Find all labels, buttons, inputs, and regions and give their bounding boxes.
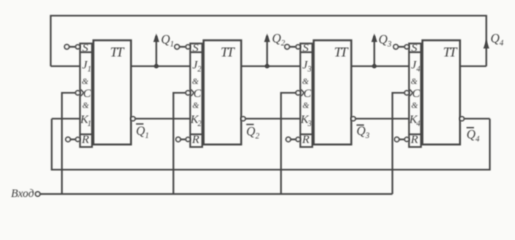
U3 Q3bar overline <box>357 124 365 125</box>
wire C2 clock drop <box>173 93 185 194</box>
U3 R cell separator <box>300 133 312 135</box>
flip-flop U1 input column <box>80 44 92 148</box>
flip-flop U4 input column <box>409 44 421 148</box>
U3 C dynamic input chevron <box>301 90 304 96</box>
svg-text:&: & <box>411 76 418 86</box>
wire Q3 to J4 <box>351 65 409 67</box>
U2 S cell separator <box>190 51 202 53</box>
U2 S terminal stub <box>179 46 186 48</box>
U4 R input bubble <box>405 137 409 141</box>
flip-flop U2 box <box>204 40 242 144</box>
wire C3 clock drop <box>281 93 296 194</box>
U1 C dynamic input chevron <box>81 90 84 96</box>
svg-text:S: S <box>193 40 199 54</box>
U4 S pin terminal <box>394 45 399 50</box>
U1 Qbar output bubble <box>131 117 135 121</box>
svg-text:&: & <box>411 100 418 110</box>
svg-text:R: R <box>410 132 419 146</box>
U3 R input bubble <box>296 137 300 141</box>
U3 S input bubble <box>296 45 300 49</box>
svg-text:C: C <box>193 86 202 100</box>
U1 C input bubble <box>76 91 80 95</box>
wire C4 clock drop <box>392 93 404 194</box>
U2 R terminal stub <box>180 138 186 140</box>
U4 S input bubble <box>405 45 409 49</box>
svg-text:R: R <box>191 132 200 146</box>
Q4 arrowhead <box>483 40 489 49</box>
U2 R pin terminal <box>176 137 181 142</box>
svg-text:S: S <box>303 40 309 54</box>
U2 S input bubble <box>186 45 190 49</box>
U1 S terminal stub <box>69 46 76 48</box>
Q2 arrowhead <box>264 34 270 43</box>
flip-flop U3 input column <box>300 44 312 148</box>
U1 S cell separator <box>80 51 92 53</box>
U3 S cell separator <box>300 51 312 53</box>
wire C1 clock drop <box>62 93 76 194</box>
wire Q1 to J2 <box>131 65 190 67</box>
wire Q3bar to K4 <box>355 118 409 120</box>
wire Q2bar to K3 <box>245 118 300 120</box>
U3 R pin terminal <box>286 137 291 142</box>
svg-text:S: S <box>411 40 417 54</box>
U2 Q2bar overline <box>246 124 254 125</box>
wire top feedback bus Q4 to J1 <box>51 16 487 66</box>
U4 C input bubble <box>405 91 409 95</box>
U1 S input bubble <box>76 45 80 49</box>
svg-text:C: C <box>412 86 421 100</box>
wire Q1bar to K2 <box>135 118 190 120</box>
wire Q4 output to feedback <box>460 65 486 67</box>
U3 Qbar output bubble <box>351 117 355 121</box>
svg-text:C: C <box>83 86 92 100</box>
U4 Q4bar overline <box>467 127 475 128</box>
wire Q2 arrow stem <box>266 36 268 66</box>
U1 S pin terminal <box>65 45 70 50</box>
svg-text:&: & <box>82 76 89 86</box>
svg-text:C: C <box>303 86 312 100</box>
flip-flop U4 box <box>422 40 460 144</box>
node Q1 junction dot <box>154 64 158 68</box>
flip-flop U3 box <box>314 40 352 144</box>
wire bottom feedback bus Q4bar to K1 <box>52 119 490 170</box>
svg-text:Вход: Вход <box>11 188 34 200</box>
U2 Qbar output bubble <box>241 117 245 121</box>
U2 R input bubble <box>186 137 190 141</box>
wire J1 input <box>51 65 80 67</box>
U3 C input bubble <box>296 91 300 95</box>
U1 Q1bar overline <box>136 123 144 124</box>
svg-text:&: & <box>192 76 199 86</box>
U4 S terminal stub <box>398 46 405 48</box>
U2 C input bubble <box>186 91 190 95</box>
Q3 arrowhead <box>371 34 377 43</box>
svg-text:R: R <box>301 132 310 146</box>
wire Q1 arrow stem <box>155 36 157 66</box>
U1 R terminal stub <box>70 138 76 140</box>
U1 R cell separator <box>80 133 92 135</box>
U4 R cell separator <box>409 133 421 135</box>
input terminal circle <box>35 192 40 197</box>
svg-text:&: & <box>303 100 310 110</box>
wire Q2 to J3 <box>241 65 300 67</box>
flip-flop U1 box <box>93 40 131 144</box>
U4 C dynamic input chevron <box>410 90 413 96</box>
U3 S pin terminal <box>285 45 290 50</box>
U4 R pin terminal <box>395 137 400 142</box>
node Q3 junction dot <box>372 64 376 68</box>
U3 S terminal stub <box>289 46 296 48</box>
U4 R terminal stub <box>399 138 405 140</box>
flip-flop U2 input column <box>190 44 202 148</box>
svg-text:R: R <box>81 132 90 146</box>
wire Q4bar output to feedback <box>464 118 490 120</box>
svg-text:&: & <box>302 76 309 86</box>
svg-text:&: & <box>192 100 199 110</box>
U4 Qbar output bubble <box>460 117 464 121</box>
wire input clock line <box>40 193 393 195</box>
U3 R terminal stub <box>290 138 296 140</box>
svg-text:S: S <box>82 40 88 54</box>
U2 C dynamic input chevron <box>191 90 194 96</box>
node Q2 junction dot <box>265 64 269 68</box>
wire K1 input <box>52 118 80 120</box>
Q1 arrowhead <box>153 34 159 43</box>
U2 R cell separator <box>190 133 202 135</box>
U4 S cell separator <box>409 51 421 53</box>
wire Q3 arrow stem <box>373 36 375 66</box>
svg-text:&: & <box>82 100 89 110</box>
U2 S pin terminal <box>175 45 180 50</box>
U1 R pin terminal <box>66 137 71 142</box>
U1 R input bubble <box>76 137 80 141</box>
